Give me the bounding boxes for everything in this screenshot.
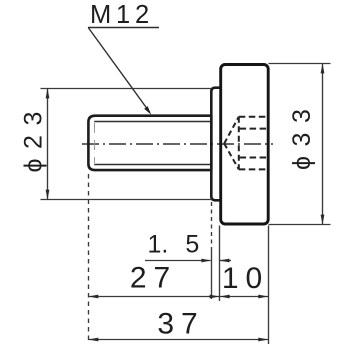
head outline — [221, 65, 269, 225]
socket hidden line top outer — [239, 116, 267, 118]
flange outline — [211, 88, 221, 201]
dimension phi23 extension line bottom — [41, 199, 213, 201]
dimension 1.5 extension line right — [219, 226, 221, 302]
center line — [82, 143, 273, 145]
dimension 1.5 tail right — [220, 260, 231, 262]
thread line top — [94, 121, 211, 123]
socket cone upper diagonal — [224, 117, 239, 144]
socket depth hidden line vertical — [238, 117, 240, 170]
socket cone lower diagonal — [224, 144, 239, 170]
dimension 10 arrow right — [258, 295, 268, 299]
dimension 1.5 extension line left dashed part — [211, 202, 213, 250]
dimension 1.5 line left — [145, 260, 211, 262]
dimension phi23 line — [47, 89, 49, 200]
svg-text:10: 10 — [222, 262, 269, 295]
label M12 leader arrowhead — [144, 106, 151, 115]
thread line bottom — [94, 164, 211, 166]
shaft M12 outline — [88, 116, 211, 170]
dimension 37 arrow left — [88, 338, 98, 342]
extension line left dashed — [88, 174, 90, 344]
dimension 27 arrow left — [88, 295, 98, 299]
socket hidden line top inner — [240, 128, 267, 130]
svg-text:ϕ33: ϕ33 — [288, 100, 316, 170]
svg-text:37: 37 — [157, 308, 204, 341]
chamfer edge line — [94, 123, 96, 163]
dimension phi33 arrow up — [321, 63, 325, 73]
dimension phi33 extension line top — [269, 63, 331, 65]
label M12 leader line — [88, 28, 149, 113]
dimension 1.5 arrow right — [201, 259, 211, 263]
dimension 37 arrow right — [258, 338, 268, 342]
dimension phi33 extension line bottom — [269, 224, 331, 226]
dimension 27 and 10 line — [88, 296, 268, 298]
svg-text:M12: M12 — [90, 1, 154, 29]
dimension phi23 arrow down — [46, 190, 50, 200]
svg-text:27: 27 — [130, 262, 177, 295]
dimension phi23 arrow up — [46, 88, 50, 98]
dimension 27 arrow right — [210, 295, 220, 299]
dimension 37 line — [88, 339, 268, 341]
dimension 10 arrow left — [220, 295, 230, 299]
extension line right — [268, 226, 270, 345]
dimension phi23 extension line top — [41, 88, 212, 90]
socket hidden line bottom outer — [239, 168, 267, 170]
dimension phi33 arrow down — [321, 215, 325, 225]
dimension 1.5 arrow left — [219, 259, 229, 263]
dimension 1.5 extension line left solid part — [211, 250, 213, 299]
dimension phi33 line — [322, 64, 324, 225]
label M12 underline — [88, 27, 159, 29]
svg-text:ϕ23: ϕ23 — [20, 102, 48, 172]
socket hidden line bottom inner — [240, 157, 267, 159]
